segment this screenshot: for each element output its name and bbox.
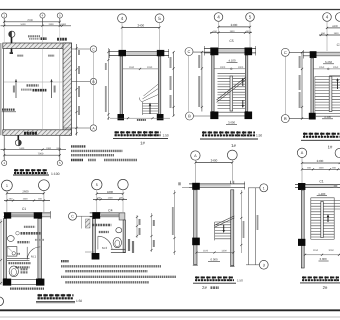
svg-text:1500: 1500	[23, 198, 29, 201]
svg-text:1150: 1150	[313, 249, 319, 252]
svg-text:C1: C1	[337, 43, 340, 47]
svg-text:5: 5	[158, 16, 161, 21]
svg-text:1200: 1200	[108, 197, 114, 200]
svg-text:7000: 7000	[38, 153, 44, 156]
svg-text:2400: 2400	[211, 159, 218, 163]
svg-text:1#: 1#	[328, 145, 333, 150]
svg-text:1: 1	[6, 184, 8, 188]
svg-text:3.600: 3.600	[228, 121, 235, 125]
svg-text:1030: 1030	[147, 66, 153, 69]
svg-text:1160: 1160	[129, 66, 135, 69]
svg-text:M.3: M.3	[102, 246, 107, 250]
svg-text:1: 1	[263, 186, 265, 190]
svg-text:2400: 2400	[332, 25, 338, 28]
svg-text:1000: 1000	[238, 66, 244, 69]
svg-text:1:50: 1:50	[163, 134, 169, 138]
svg-text:C4: C4	[108, 208, 112, 212]
svg-text:2400: 2400	[317, 159, 324, 163]
svg-text:2400: 2400	[231, 23, 238, 27]
svg-text:1:50: 1:50	[76, 299, 82, 303]
svg-text:5100: 5100	[21, 23, 27, 26]
svg-text:5100: 5100	[19, 147, 25, 150]
svg-text:1100: 1100	[203, 250, 209, 253]
svg-text:1800: 1800	[107, 190, 114, 194]
svg-text:2400: 2400	[137, 24, 144, 28]
svg-text:6.250: 6.250	[325, 60, 332, 64]
svg-text:B: B	[188, 114, 191, 119]
svg-text:A: A	[194, 154, 197, 158]
svg-text:C: C	[71, 215, 74, 219]
svg-text:4.100: 4.100	[229, 59, 236, 63]
svg-text:1930: 1930	[334, 32, 340, 35]
svg-text:C: C	[188, 49, 191, 54]
svg-text:5: 5	[249, 15, 252, 20]
svg-text:C: C	[284, 50, 287, 55]
svg-text:1:50: 1:50	[256, 134, 262, 138]
svg-text:5: 5	[96, 183, 98, 187]
svg-text:2400: 2400	[46, 147, 52, 150]
svg-text:A: A	[301, 151, 304, 155]
svg-text:3.300: 3.300	[324, 115, 331, 119]
svg-text:2#: 2#	[323, 285, 328, 290]
svg-text:0.000: 0.000	[211, 258, 218, 262]
svg-text:4: 4	[121, 16, 124, 21]
svg-text:1050: 1050	[333, 66, 339, 69]
svg-text:1.480: 1.480	[318, 192, 325, 196]
svg-text:C5: C5	[229, 39, 233, 43]
svg-text:M.1: M.1	[31, 255, 36, 259]
svg-text:1#: 1#	[140, 140, 145, 145]
svg-text:7000: 7000	[27, 19, 33, 22]
svg-text:2600: 2600	[22, 190, 29, 194]
svg-text:4: 4	[217, 15, 220, 20]
svg-text:2#: 2#	[202, 285, 207, 290]
svg-text:1#: 1#	[231, 143, 236, 148]
svg-text:2400: 2400	[49, 23, 55, 26]
svg-text:1050: 1050	[319, 66, 325, 69]
svg-text:B: B	[284, 116, 287, 121]
svg-text:C1: C1	[319, 179, 323, 183]
svg-text:3: 3	[263, 263, 265, 267]
svg-text:3.300: 3.300	[320, 257, 327, 261]
svg-text:1:100: 1:100	[51, 172, 60, 176]
svg-text:1:50: 1:50	[237, 278, 243, 282]
svg-text:1050: 1050	[328, 249, 334, 252]
svg-text:4: 4	[326, 15, 329, 20]
svg-text:1300: 1300	[221, 250, 227, 253]
svg-text:1500: 1500	[319, 167, 325, 170]
svg-text:1000: 1000	[220, 66, 226, 69]
svg-text:1930: 1930	[230, 30, 236, 33]
svg-text:C1: C1	[22, 207, 26, 211]
